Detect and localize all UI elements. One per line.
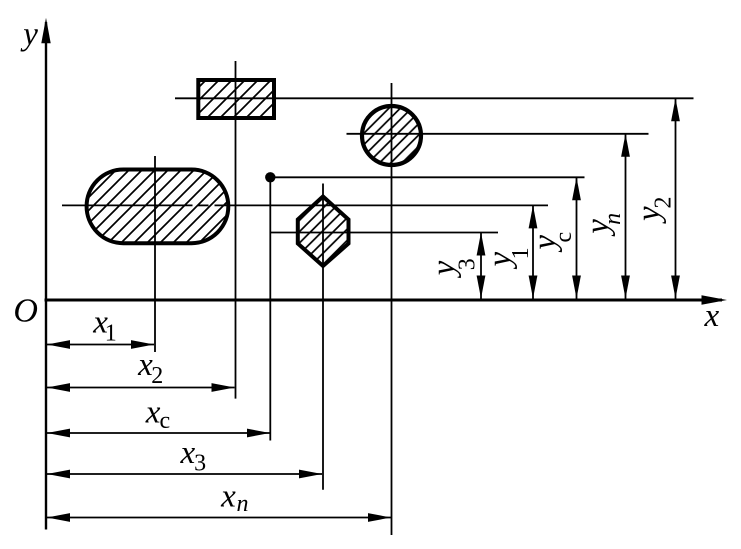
svg-text:x: x (145, 395, 161, 431)
svg-text:2: 2 (151, 363, 163, 389)
svg-text:3: 3 (455, 258, 481, 270)
svg-text:y: y (20, 17, 38, 53)
svg-text:x: x (704, 298, 720, 334)
svg-text:c: c (160, 408, 171, 434)
svg-text:1: 1 (105, 321, 117, 347)
svg-text:n: n (600, 213, 626, 225)
svg-text:n: n (237, 491, 249, 517)
svg-text:2: 2 (651, 197, 677, 209)
svg-text:c: c (551, 232, 577, 243)
svg-text:3: 3 (194, 450, 206, 476)
svg-text:O: O (13, 293, 38, 330)
svg-text:x: x (220, 479, 236, 515)
